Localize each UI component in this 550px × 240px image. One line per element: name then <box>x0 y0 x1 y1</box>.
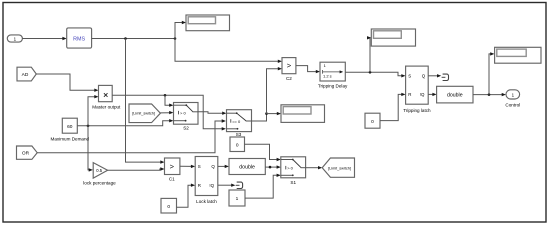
wire junction B down to C2 input1 <box>175 39 282 64</box>
inport In1 <box>7 35 22 42</box>
wire Tripping latch !Q to double <box>428 93 436 96</box>
wire gain to C1 input2 <box>108 167 165 170</box>
wire OR to S3 input2 <box>37 119 226 152</box>
svg-text:> 0: > 0 <box>180 111 186 116</box>
constant 1 <box>229 190 245 206</box>
latch Tripping latch <box>403 66 431 113</box>
svg-text:Master output: Master output <box>92 105 121 110</box>
block double (upper) <box>437 86 473 103</box>
svg-text:[Limit_switch]: [Limit_switch] <box>132 112 155 116</box>
wire junction D up to C2 input2 <box>267 67 283 114</box>
wire 0 to Lock latch R <box>177 184 196 208</box>
wire S2 output to S3 input1 <box>198 112 226 115</box>
svg-text:[Limit_switch]: [Limit_switch] <box>328 166 351 170</box>
svg-text:Maximum Demand: Maximum Demand <box>51 137 90 142</box>
wire Lock latch Q to double2 <box>218 165 229 168</box>
svg-text:R: R <box>408 92 411 97</box>
wire junction B up to Display1 <box>175 21 186 39</box>
node junction TD <box>369 71 372 74</box>
wire junction down to gain <box>88 126 93 172</box>
svg-text:double: double <box>447 92 463 98</box>
wire Tripping Delay to Tripping latch S <box>345 72 405 77</box>
node junction B <box>174 37 177 40</box>
svg-text:C1: C1 <box>169 177 175 182</box>
node junction A <box>124 37 127 40</box>
outport Control <box>505 90 520 108</box>
wire 0 to Tripping latch R <box>380 93 406 121</box>
wire junction C down to S2 input1 <box>165 95 173 107</box>
wire C1 to Lock latch S <box>180 165 195 168</box>
svg-text:S: S <box>198 164 201 169</box>
wire 1 to S1 input3 <box>245 174 281 199</box>
tag Goto Limit_switch <box>322 158 354 177</box>
wire Lock latch !Q to terminator T2 <box>218 184 236 187</box>
svg-text:== 0: == 0 <box>232 119 241 124</box>
svg-text:AD: AD <box>22 72 29 78</box>
svg-text:Tripping latch: Tripping latch <box>403 108 431 113</box>
tag From Limit_switch <box>129 104 160 123</box>
wire Tripping latch Q to terminator <box>428 74 441 77</box>
svg-text:RMS: RMS <box>73 36 85 42</box>
svg-text:1.2 s: 1.2 s <box>323 73 332 78</box>
product Master output <box>92 85 121 109</box>
wire double2 to S1 input2 <box>265 165 281 168</box>
compare C2 <box>282 58 296 82</box>
wire S1 to Goto tag <box>306 166 323 169</box>
svg-text:0.5: 0.5 <box>96 168 102 173</box>
svg-text:0: 0 <box>371 119 374 125</box>
node junction F <box>488 93 491 96</box>
svg-text:Tripping Delay: Tripping Delay <box>318 84 348 89</box>
wire junction F up to Display3 <box>489 52 494 94</box>
wire In1 to RMS <box>22 37 66 40</box>
svg-text:Q: Q <box>211 164 215 169</box>
svg-text:1: 1 <box>236 196 239 202</box>
latch Lock latch <box>195 157 218 204</box>
svg-text:C2: C2 <box>286 76 292 81</box>
svg-text:60: 60 <box>67 124 73 130</box>
gain lock percentage <box>83 163 116 186</box>
constant 0 (lock reset) <box>161 198 177 213</box>
svg-text:S: S <box>408 74 411 79</box>
svg-text:Lock latch: Lock latch <box>196 199 217 204</box>
svg-text:!Q: !Q <box>420 92 425 97</box>
svg-text:0: 0 <box>236 142 239 148</box>
display Display1 <box>186 15 230 31</box>
svg-text:>: > <box>170 162 175 171</box>
svg-text:!Q: !Q <box>209 183 214 188</box>
display Display2 <box>371 29 415 46</box>
terminator T1 <box>442 74 449 80</box>
block RMS <box>67 28 92 48</box>
tag From AD <box>17 67 36 81</box>
svg-text:Control: Control <box>505 102 520 107</box>
wire junction D to Display4 <box>267 112 282 115</box>
wire junction up to product input2 <box>88 95 99 126</box>
wire product output to S3 input3 <box>112 95 226 130</box>
wire 60 to S2 input3 <box>77 119 173 126</box>
compare C1 <box>165 158 180 182</box>
wire RMS output <box>92 38 175 40</box>
node junction E <box>269 166 272 169</box>
wire S3 output up to junction D <box>252 114 267 121</box>
tag OR <box>17 146 38 159</box>
svg-text:0: 0 <box>167 204 170 210</box>
wire AD to product input1 <box>36 74 98 92</box>
wire 0 to S1 input1 <box>245 144 281 161</box>
node junction D <box>265 112 268 115</box>
svg-text:> 0: > 0 <box>287 166 293 171</box>
constant 0 (S1 feed) <box>230 137 245 152</box>
svg-text:>: > <box>287 61 292 70</box>
wire C2 to Tripping Delay <box>296 66 320 74</box>
display Display4 <box>281 105 325 123</box>
wire double to Control <box>473 93 506 96</box>
svg-text:S2: S2 <box>183 126 189 131</box>
node junction C <box>164 94 167 97</box>
wire junction up to Display2 <box>367 36 371 72</box>
wire From tag to S2 input2 <box>160 111 173 114</box>
wire junction A down to C1 input1 <box>126 39 165 164</box>
constant 60 <box>51 118 90 141</box>
switch S1 <box>281 157 306 185</box>
display Display3 <box>495 47 541 63</box>
block Tripping Delay <box>318 62 348 88</box>
svg-text:S1: S1 <box>290 180 296 185</box>
svg-text:double: double <box>239 164 255 170</box>
block double (lower) <box>229 159 265 175</box>
svg-text:R: R <box>198 183 201 188</box>
terminator T2 <box>236 182 243 188</box>
node junction on 60 wire <box>87 125 90 128</box>
svg-text:OR: OR <box>22 151 30 157</box>
svg-text:lock percentage: lock percentage <box>83 180 116 185</box>
constant 0 (tripping reset) <box>365 113 380 128</box>
switch S2 <box>174 103 199 131</box>
svg-text:Q: Q <box>422 74 426 79</box>
switch S3 <box>227 110 252 138</box>
